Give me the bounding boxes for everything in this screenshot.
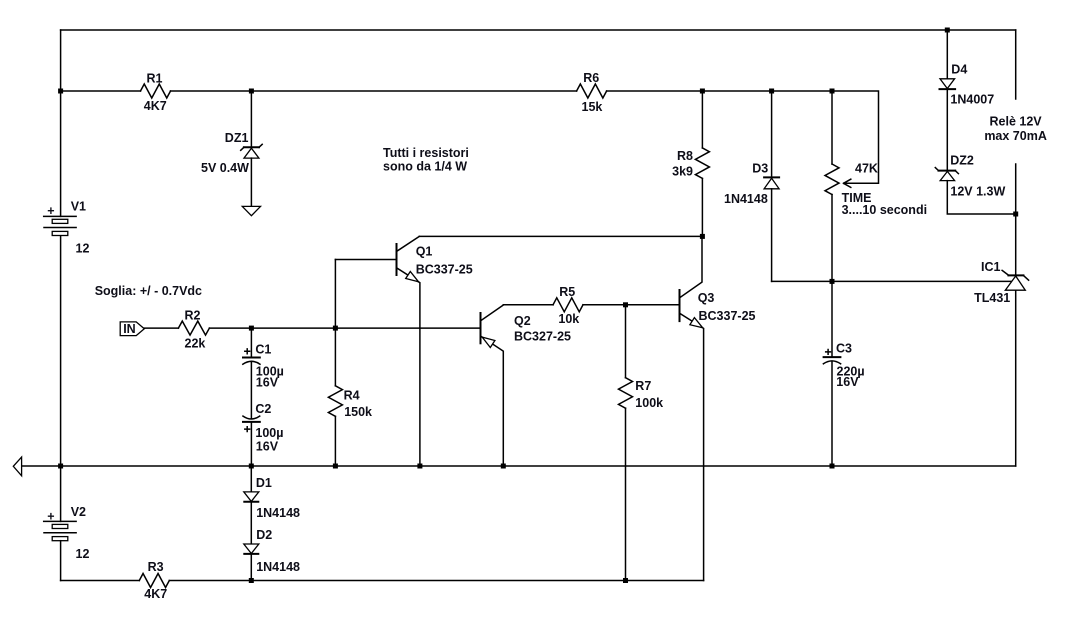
svg-text:Q3: Q3 — [698, 291, 715, 305]
svg-text:IC1: IC1 — [981, 260, 1001, 274]
port IN — [120, 322, 144, 336]
svg-text:5V 0.4W: 5V 0.4W — [201, 161, 249, 175]
wire 5V rail segment right + drop to wiper — [607, 91, 879, 183]
svg-text:sono da 1/4 W: sono da 1/4 W — [383, 160, 467, 174]
svg-text:Tutti i resistori: Tutti i resistori — [383, 146, 469, 160]
svg-text:100k: 100k — [635, 396, 663, 410]
svg-text:4K7: 4K7 — [144, 99, 167, 113]
svg-text:BC327-25: BC327-25 — [514, 329, 571, 343]
svg-text:1N4148: 1N4148 — [256, 506, 300, 520]
svg-text:max 70mA: max 70mA — [984, 129, 1047, 143]
svg-text:1N4007: 1N4007 — [950, 92, 994, 106]
ground arrow left — [13, 457, 21, 476]
svg-text:+: + — [47, 510, 54, 524]
svg-text:C3: C3 — [836, 342, 852, 356]
svg-text:150k: 150k — [344, 405, 372, 419]
wire 5V rail segment left — [61, 90, 141, 92]
zener diode DZ1 5V 0.4W — [201, 91, 262, 206]
svg-text:12: 12 — [76, 241, 90, 255]
svg-text:R8: R8 — [677, 149, 693, 163]
resistor R8 3k9 — [672, 91, 709, 236]
svg-text:16V: 16V — [836, 375, 859, 389]
svg-text:22k: 22k — [185, 336, 206, 350]
svg-text:100µ: 100µ — [255, 426, 283, 440]
wire TL431 ref rail — [772, 280, 1011, 282]
resistor R5 10k — [553, 285, 583, 326]
svg-text:16V: 16V — [256, 440, 279, 454]
svg-text:Q2: Q2 — [514, 314, 531, 328]
svg-text:R4: R4 — [344, 388, 360, 402]
svg-text:IN: IN — [123, 322, 136, 336]
wire bottom rail segment left — [61, 580, 140, 582]
IC1 TL431 shunt regulator — [974, 260, 1029, 466]
resistor R2 22k — [178, 309, 209, 351]
wire ground rail — [22, 465, 1016, 467]
wire R2 to Q2 base — [209, 327, 480, 329]
label relay — [984, 114, 1047, 142]
transistor Q2 BC327-25 — [481, 305, 572, 466]
svg-text:1N4148: 1N4148 — [724, 192, 768, 206]
svg-text:10k: 10k — [558, 312, 579, 326]
capacitor C2 100u 16V — [243, 402, 283, 466]
svg-text:R7: R7 — [635, 379, 651, 393]
svg-text:3....10 secondi: 3....10 secondi — [842, 203, 927, 217]
resistor R6 15k — [577, 71, 607, 114]
svg-text:DZ2: DZ2 — [950, 153, 974, 167]
svg-text:+: + — [47, 204, 54, 218]
svg-text:C1: C1 — [255, 342, 271, 356]
transistor Q3 BC337-25 — [680, 236, 756, 580]
wire top +12V rail — [61, 29, 1016, 31]
svg-text:R6: R6 — [583, 71, 599, 85]
resistor R4 150k — [328, 260, 372, 467]
capacitor C3 220u 16V — [823, 281, 864, 466]
wire 5V rail segment middle — [171, 90, 577, 92]
wire Q2 emitter to R5 — [503, 304, 553, 306]
svg-text:C2: C2 — [255, 402, 271, 416]
svg-text:TL431: TL431 — [974, 291, 1010, 305]
resistor R7 100k — [619, 305, 664, 581]
svg-text:D3: D3 — [752, 161, 768, 175]
svg-text:V2: V2 — [71, 505, 86, 519]
svg-text:3k9: 3k9 — [672, 165, 693, 179]
svg-text:D2: D2 — [256, 528, 272, 542]
battery V1 — [44, 200, 90, 256]
diode D4 1N4007 — [940, 30, 995, 171]
potentiometer 47K TIME — [825, 91, 927, 281]
svg-text:R5: R5 — [559, 285, 575, 299]
svg-text:12V 1.3W: 12V 1.3W — [950, 184, 1005, 198]
svg-text:D4: D4 — [951, 63, 967, 77]
capacitor C1 100u 16V — [243, 328, 284, 418]
wire relay branch lower — [1015, 164, 1017, 275]
diode D2 1N4148 — [244, 528, 300, 581]
diode D1 1N4148 — [244, 466, 300, 544]
svg-text:BC337-25: BC337-25 — [699, 309, 756, 323]
svg-text:16V: 16V — [256, 375, 279, 389]
wire relay branch upper — [1015, 30, 1017, 99]
svg-text:R3: R3 — [148, 560, 164, 574]
svg-text:BC337-25: BC337-25 — [416, 262, 473, 276]
transistor Q1 BC337-25 — [335, 236, 472, 466]
svg-text:R1: R1 — [147, 72, 163, 86]
battery V2 — [44, 466, 90, 581]
wiper arrow of 47K — [844, 179, 851, 187]
wire R5 to Q3 base — [583, 304, 680, 306]
svg-text:1N4148: 1N4148 — [256, 560, 300, 574]
svg-text:47K: 47K — [855, 162, 878, 176]
ground symbol below DZ1 — [242, 206, 260, 215]
svg-text:R2: R2 — [185, 309, 201, 323]
svg-text:Soglia: +/ - 0.7Vdc: Soglia: +/ - 0.7Vdc — [95, 284, 202, 298]
wire IN to R2 — [144, 327, 178, 329]
note all resistors — [383, 146, 469, 173]
wire bottom rail segment right — [169, 580, 703, 582]
svg-text:V1: V1 — [71, 200, 86, 214]
wire left rail lower (V1 bottom to ground rail) — [60, 235, 62, 466]
svg-text:DZ1: DZ1 — [225, 131, 249, 145]
svg-text:12: 12 — [76, 547, 90, 561]
svg-text:D1: D1 — [256, 476, 272, 490]
svg-text:15k: 15k — [582, 100, 603, 114]
zener diode DZ2 12V 1.3W — [935, 153, 1015, 214]
resistor R3 4K7 — [139, 560, 169, 601]
wire Q1 collector rail — [419, 235, 702, 237]
svg-text:Relè 12V: Relè 12V — [990, 114, 1043, 128]
wire left rail upper (V1 top) — [60, 30, 62, 216]
resistor R1 4K7 — [141, 72, 171, 114]
svg-text:4K7: 4K7 — [144, 587, 167, 601]
diode D3 1N4148 — [724, 91, 779, 281]
svg-text:Q1: Q1 — [416, 244, 433, 258]
